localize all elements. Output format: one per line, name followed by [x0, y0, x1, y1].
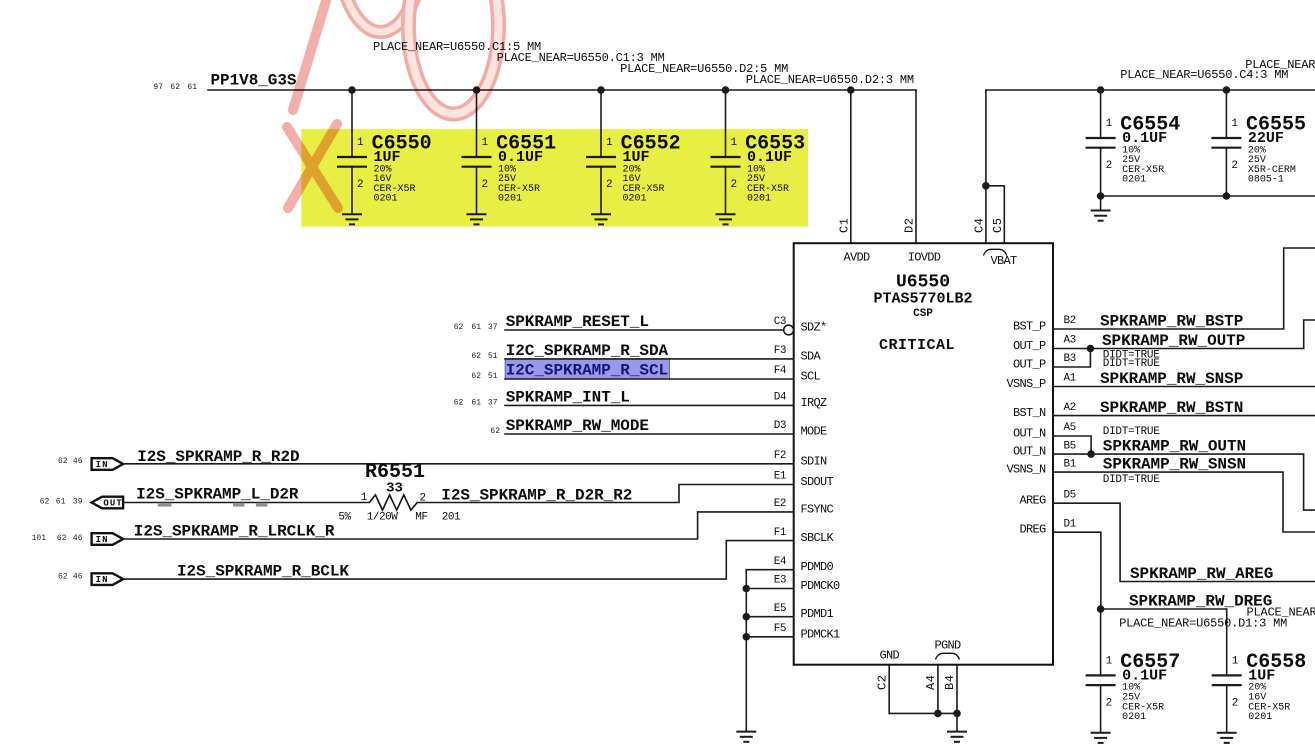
svg-text:PDMCK0: PDMCK0	[801, 579, 841, 593]
capacitor C6557	[1086, 651, 1181, 723]
wire SPKRAMP_RW_SNSN	[1053, 472, 1315, 532]
capacitor C6553	[711, 133, 806, 205]
wire VBAT pin C5 branch	[986, 186, 1004, 243]
svg-text:1: 1	[606, 137, 613, 149]
svg-text:OUT_P: OUT_P	[1013, 358, 1046, 372]
inverting bubble on pin SDZ*	[784, 325, 794, 335]
svg-text:D1: D1	[1064, 518, 1077, 530]
svg-text:1: 1	[1232, 655, 1239, 667]
junction on PP1V8_G3S rail	[348, 86, 356, 94]
yellow highlight over decoupling caps C6550-C6553	[301, 129, 808, 227]
svg-text:D4: D4	[774, 392, 787, 404]
gray underscore marks of I2S_SPKRAMP_L_D2R	[158, 503, 267, 507]
svg-text:OUT_N: OUT_N	[1013, 427, 1046, 441]
wire C6558 pin2	[1226, 685, 1228, 733]
svg-text:C3: C3	[774, 316, 786, 328]
svg-text:VBAT: VBAT	[990, 254, 1017, 268]
page references I2S_SPKRAMP_R_BCLK	[58, 572, 83, 581]
wire SPKRAMP_RW_BSTN	[1053, 415, 1315, 417]
capacitor C6554	[1086, 114, 1181, 186]
wire C6553 pin1	[725, 90, 727, 157]
wire C6553 pin2	[725, 167, 727, 215]
junction on PP1V8_G3S rail	[597, 86, 605, 94]
svg-text:A3: A3	[1064, 335, 1076, 347]
wire I2S_SPKRAMP_L_D2R	[123, 502, 369, 504]
svg-text:SDA: SDA	[801, 349, 822, 363]
wire I2S_SPKRAMP_R_R2D to SDIN	[123, 463, 794, 465]
ground below C6557	[1091, 733, 1111, 743]
junction B4	[953, 710, 961, 718]
watermark number fragments (pink)	[287, 0, 499, 208]
svg-text:62: 62	[58, 572, 68, 581]
svg-text:CSP: CSP	[913, 308, 933, 320]
svg-text:BST_N: BST_N	[1013, 406, 1046, 420]
page references I2S_SPKRAMP_L_D2R	[40, 498, 83, 507]
page references SPKRAMP_RW_MODE	[490, 427, 500, 436]
svg-text:VSNS_P: VSNS_P	[1006, 377, 1046, 391]
wire OUT_P B3 join	[1053, 349, 1090, 368]
svg-text:OUT: OUT	[103, 499, 123, 509]
junction ground rail at C6554	[1097, 192, 1105, 200]
wire AVDD drop	[850, 90, 852, 243]
svg-text:AREG: AREG	[1019, 494, 1046, 508]
page references SPKRAMP_INT_L	[454, 398, 498, 407]
svg-text:PLACE_NEAR=U6550.D5:3 MM: PLACE_NEAR=U6550.D5:3 MM	[1247, 605, 1315, 619]
svg-text:A5: A5	[1064, 422, 1076, 434]
wire C6551 pin2	[476, 167, 478, 215]
svg-text:1: 1	[731, 137, 738, 149]
svg-text:SDIN: SDIN	[801, 454, 828, 468]
wire GND pin C2	[888, 665, 890, 714]
svg-text:OUT_P: OUT_P	[1013, 339, 1046, 353]
svg-text:FSYNC: FSYNC	[801, 502, 834, 516]
svg-text:F2: F2	[774, 450, 786, 462]
wire PDMCK1 stub F5	[746, 636, 793, 638]
svg-text:C5: C5	[991, 218, 1005, 233]
svg-text:1: 1	[482, 137, 489, 149]
svg-text:I2S_SPKRAMP_L_D2R: I2S_SPKRAMP_L_D2R	[136, 486, 299, 504]
ground below C6554	[1091, 211, 1111, 221]
svg-text:97: 97	[153, 83, 163, 92]
svg-text:62: 62	[490, 427, 500, 436]
wire C6552 pin2	[600, 167, 602, 215]
wire DREG from pin D1	[1053, 532, 1101, 609]
svg-text:33: 33	[386, 481, 403, 497]
wire C6554 pin1	[1100, 90, 1102, 138]
wire C6555 pin2	[1225, 148, 1227, 196]
wire SPKRAMP_RW_SNSP	[1053, 386, 1315, 388]
svg-text:OUT_N: OUT_N	[1013, 445, 1046, 459]
wire I2C_SPKRAMP_R_SCL	[505, 378, 794, 380]
svg-text:PTAS5770LB2: PTAS5770LB2	[873, 291, 972, 308]
svg-text:F1: F1	[774, 527, 787, 539]
port IN I2S_SPKRAMP_R_R2D	[92, 458, 124, 470]
svg-text:1: 1	[1231, 118, 1238, 130]
svg-text:1: 1	[1106, 655, 1113, 667]
brace joining pins A4,B4 to PGND	[935, 653, 959, 659]
svg-text:I2S_SPKRAMP_R_D2R_R2: I2S_SPKRAMP_R_D2R_R2	[441, 486, 632, 504]
svg-text:IOVDD: IOVDD	[908, 251, 941, 265]
junction on PP1V8_G3S rail	[847, 86, 855, 94]
svg-text:D2: D2	[903, 218, 917, 233]
svg-text:PDMD1: PDMD1	[801, 607, 834, 621]
svg-text:B3: B3	[1064, 353, 1076, 365]
svg-text:SDOUT: SDOUT	[801, 475, 834, 489]
svg-text:37: 37	[488, 323, 498, 332]
svg-text:F3: F3	[774, 345, 786, 357]
capacitor C6555	[1211, 114, 1306, 186]
svg-text:SDZ*: SDZ*	[801, 321, 827, 335]
wire C6551 pin1	[476, 90, 478, 157]
wire I2S_SPKRAMP_R_D2R_R2 to SDOUT	[417, 485, 794, 503]
svg-text:BST_P: BST_P	[1013, 320, 1046, 334]
svg-text:101: 101	[32, 534, 47, 543]
svg-text:I2S_SPKRAMP_R_LRCLK_R: I2S_SPKRAMP_R_LRCLK_R	[134, 523, 335, 541]
wire SPKRAMP_RW_DREG rail	[1101, 608, 1227, 610]
svg-text:AVDD: AVDD	[843, 251, 870, 265]
wire ground stub	[1100, 196, 1102, 211]
op-amp U6550 PTAS5770LB2 body	[794, 243, 1053, 665]
capacitor C6550	[337, 133, 432, 205]
svg-text:B1: B1	[1064, 458, 1077, 470]
svg-text:62: 62	[58, 457, 68, 466]
wire I2C_SPKRAMP_R_SDA	[505, 358, 794, 360]
junction OUT_N pins	[1087, 450, 1095, 458]
junction DREG at C6557	[1097, 605, 1105, 613]
wire PDMCK0 stub E3	[746, 588, 793, 590]
svg-text:VSNS_N: VSNS_N	[1006, 463, 1046, 477]
resistor R6551	[338, 461, 461, 524]
capacitor C6551	[462, 133, 557, 205]
svg-text:IN: IN	[96, 460, 109, 470]
svg-text:2: 2	[357, 179, 363, 191]
svg-text:2: 2	[1106, 160, 1112, 172]
svg-text:39: 39	[73, 498, 83, 507]
svg-text:PGND: PGND	[934, 639, 961, 653]
svg-text:A1: A1	[1064, 373, 1077, 385]
svg-text:DIDT=TRUE: DIDT=TRUE	[1103, 426, 1160, 438]
svg-text:2: 2	[482, 179, 488, 191]
ground below C6558	[1217, 733, 1237, 743]
svg-text:0201: 0201	[374, 194, 398, 205]
svg-text:MODE: MODE	[801, 425, 828, 439]
wire PGND pin A4	[937, 665, 939, 714]
svg-text:A4: A4	[924, 675, 938, 690]
svg-text:PDMD0: PDMD0	[801, 560, 834, 574]
junction on PP1V8_G3S rail	[473, 86, 481, 94]
svg-text:46: 46	[73, 534, 83, 543]
wire VBAT rail	[986, 89, 1315, 91]
svg-text:51: 51	[488, 372, 498, 381]
svg-text:GND: GND	[879, 649, 899, 663]
svg-text:IN: IN	[96, 575, 109, 585]
ground below PGND	[947, 732, 967, 742]
svg-text:DIDT=TRUE: DIDT=TRUE	[1103, 474, 1160, 486]
svg-text:62: 62	[57, 534, 67, 543]
svg-text:0201: 0201	[1122, 175, 1146, 186]
wire I2S_SPKRAMP_R_BCLK to SBCLK	[123, 541, 794, 580]
svg-text:C1: C1	[837, 218, 851, 233]
wire PP1V8_G3S rail	[208, 89, 916, 91]
svg-text:SPKRAMP_RW_SNSP: SPKRAMP_RW_SNSP	[1100, 370, 1243, 388]
wire C6555 pin1	[1225, 90, 1227, 138]
wire SPKRAMP_RW_AREG	[1053, 503, 1315, 581]
junction E5	[743, 613, 751, 621]
junction E3	[743, 585, 751, 593]
svg-text:E3: E3	[774, 575, 786, 587]
svg-text:61: 61	[471, 323, 481, 332]
junction on PP1V8_G3S rail	[722, 86, 730, 94]
svg-text:62: 62	[454, 323, 464, 332]
svg-text:SBCLK: SBCLK	[801, 531, 835, 545]
svg-text:E4: E4	[774, 556, 787, 568]
wire I2S_SPKRAMP_R_LRCLK_R to FSYNC	[123, 512, 794, 539]
wire C6550 pin1	[351, 90, 353, 157]
junction ground rail at C6555	[1223, 192, 1231, 200]
junction C5 to C4 wire	[982, 182, 990, 190]
svg-text:61: 61	[56, 498, 66, 507]
wire to ground	[956, 713, 958, 731]
svg-text:0201: 0201	[498, 194, 522, 205]
port IN I2S_SPKRAMP_R_BCLK	[92, 573, 124, 585]
svg-text:201: 201	[442, 512, 461, 524]
svg-text:0201: 0201	[747, 194, 771, 205]
svg-text:2: 2	[731, 179, 737, 191]
wire SPKRAMP_RW_BSTP	[1053, 248, 1315, 329]
svg-text:46: 46	[73, 572, 83, 581]
svg-text:2: 2	[1106, 697, 1112, 709]
wire IOVDD drop	[915, 90, 917, 243]
wire C6557 pin2	[1100, 685, 1102, 733]
svg-text:PLACE_NEAR=U6550.C5:3 MM: PLACE_NEAR=U6550.C5:3 MM	[1245, 58, 1315, 72]
wire PDM ground bus	[745, 570, 747, 732]
svg-text:CRITICAL: CRITICAL	[879, 337, 955, 354]
svg-text:SPKRAMP_RW_SNSN: SPKRAMP_RW_SNSN	[1103, 456, 1246, 474]
svg-text:I2C_SPKRAMP_R_SCL: I2C_SPKRAMP_R_SCL	[506, 362, 668, 380]
svg-text:1: 1	[357, 137, 364, 149]
wire C6558 pin1	[1226, 609, 1228, 675]
svg-text:I2S_SPKRAMP_R_BCLK: I2S_SPKRAMP_R_BCLK	[177, 562, 349, 580]
junction A4	[934, 710, 942, 718]
svg-text:SPKRAMP_INT_L: SPKRAMP_INT_L	[506, 389, 630, 407]
page references I2C_SPKRAMP_R_SDA	[471, 352, 497, 361]
svg-text:SPKRAMP_RW_MODE: SPKRAMP_RW_MODE	[506, 417, 649, 435]
svg-text:MF: MF	[415, 512, 427, 524]
svg-text:B4: B4	[943, 675, 957, 690]
ground below C6550	[342, 214, 362, 224]
svg-text:2: 2	[606, 179, 612, 191]
svg-text:B2: B2	[1064, 315, 1076, 327]
wire SPKRAMP_INT_L	[505, 404, 794, 406]
svg-text:SPKRAMP_RW_AREG: SPKRAMP_RW_AREG	[1130, 565, 1273, 583]
svg-text:D3: D3	[774, 420, 786, 432]
svg-text:37: 37	[488, 398, 498, 407]
port OUT I2S_SPKRAMP_L_D2R	[92, 497, 124, 509]
svg-text:E1: E1	[774, 471, 787, 483]
svg-text:SPKRAMP_RESET_L: SPKRAMP_RESET_L	[506, 313, 649, 331]
page references I2S_SPKRAMP_R_R2D	[58, 457, 83, 466]
brace joining pins C4,C5 to VBAT	[983, 249, 1006, 255]
svg-text:DIDT=TRUE: DIDT=TRUE	[1103, 358, 1160, 370]
svg-text:5%: 5%	[338, 512, 351, 524]
svg-text:IRQZ: IRQZ	[801, 396, 828, 410]
page references SPKRAMP_RESET_L	[454, 323, 498, 332]
svg-text:E5: E5	[774, 603, 786, 615]
svg-text:0805-1: 0805-1	[1248, 175, 1284, 186]
svg-text:I2C_SPKRAMP_R_SDA: I2C_SPKRAMP_R_SDA	[506, 342, 669, 360]
svg-text:1: 1	[361, 492, 368, 504]
svg-text:1/20W: 1/20W	[367, 512, 398, 524]
svg-text:SPKRAMP_RW_BSTP: SPKRAMP_RW_BSTP	[1100, 313, 1243, 331]
wire PDMD1 stub E5	[746, 616, 793, 618]
svg-text:2: 2	[1231, 160, 1237, 172]
svg-text:B5: B5	[1064, 440, 1076, 452]
svg-text:PP1V8_G3S: PP1V8_G3S	[211, 72, 297, 90]
svg-text:C4: C4	[972, 218, 986, 233]
svg-text:2: 2	[1232, 697, 1238, 709]
svg-text:A2: A2	[1064, 402, 1076, 414]
svg-text:U6550: U6550	[896, 273, 950, 293]
svg-text:0201: 0201	[1122, 712, 1146, 723]
capacitor C6558	[1212, 651, 1307, 723]
svg-text:D5: D5	[1064, 489, 1076, 501]
wire SPKRAMP_RESET_L	[505, 329, 784, 331]
svg-text:F5: F5	[774, 623, 786, 635]
page references I2C_SPKRAMP_R_SCL	[471, 372, 497, 381]
junction OUT_P pins	[1087, 345, 1095, 353]
wire PGND pin B4	[956, 665, 958, 714]
blue selection highlight on net I2C_SPKRAMP_R_SCL	[505, 359, 669, 379]
svg-text:SCL: SCL	[801, 370, 821, 384]
svg-text:51: 51	[488, 352, 498, 361]
svg-text:C2: C2	[875, 675, 889, 690]
svg-text:F4: F4	[774, 365, 787, 377]
wire SPKRAMP_RW_MODE	[505, 433, 794, 435]
wire PDMD0 stub E4	[746, 569, 793, 571]
junction VBAT rail at C6555	[1223, 86, 1231, 94]
svg-text:PLACE_NEAR=U6550.D2:3 MM: PLACE_NEAR=U6550.D2:3 MM	[746, 73, 914, 87]
capacitor C6552	[586, 133, 681, 205]
wire C6552 pin1	[600, 90, 602, 157]
wire OUT_N A5 join	[1053, 436, 1091, 454]
junction F5	[743, 633, 751, 641]
ground below C6552	[591, 214, 611, 224]
svg-text:PDMCK1: PDMCK1	[801, 627, 841, 641]
svg-text:0201: 0201	[1248, 712, 1272, 723]
svg-text:62: 62	[454, 398, 464, 407]
svg-text:SPKRAMP_RW_OUTN: SPKRAMP_RW_OUTN	[1103, 438, 1246, 456]
wire SPKRAMP_RW_OUTP	[1053, 320, 1315, 349]
svg-text:62: 62	[471, 372, 481, 381]
svg-text:0201: 0201	[623, 194, 647, 205]
wire C6550 pin2	[351, 167, 353, 215]
port IN I2S_SPKRAMP_R_LRCLK_R	[92, 533, 124, 545]
svg-text:SPKRAMP_RW_OUTP: SPKRAMP_RW_OUTP	[1102, 332, 1245, 350]
svg-text:IN: IN	[96, 535, 109, 545]
junction VBAT rail at C6554	[1097, 86, 1105, 94]
svg-text:62: 62	[471, 352, 481, 361]
svg-text:61: 61	[471, 398, 481, 407]
svg-text:62: 62	[40, 498, 50, 507]
svg-text:61: 61	[187, 83, 197, 92]
ground below PDM pins	[736, 732, 756, 742]
ground below C6553	[716, 214, 736, 224]
svg-text:E2: E2	[774, 498, 786, 510]
wire GND to PGND bus	[889, 712, 957, 714]
svg-text:46: 46	[73, 457, 83, 466]
svg-text:62: 62	[170, 83, 180, 92]
svg-text:1: 1	[1106, 118, 1113, 130]
svg-text:DREG: DREG	[1019, 523, 1046, 537]
svg-text:SPKRAMP_RW_BSTN: SPKRAMP_RW_BSTN	[1100, 399, 1243, 417]
wire VBAT pin C4 drop	[985, 90, 987, 243]
wire ground rail of C6554/C6555	[1101, 195, 1315, 197]
wire SPKRAMP_RW_OUTN	[1053, 454, 1315, 510]
wire C6554 pin2	[1100, 148, 1102, 196]
wire C6557 pin1	[1100, 609, 1102, 675]
page references I2S_SPKRAMP_R_LRCLK_R	[32, 534, 83, 543]
ground below C6551	[467, 214, 487, 224]
